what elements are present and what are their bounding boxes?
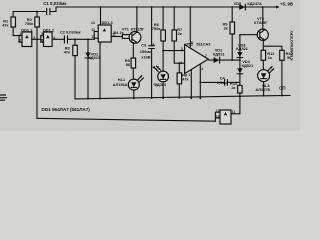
node R8 tap bbox=[178, 62, 180, 64]
svg-text:0,1мк: 0,1мк bbox=[217, 80, 227, 85]
wire ground rail bbox=[75, 95, 290, 99]
resistor R9 bbox=[223, 6, 235, 60]
svg-text:1: 1 bbox=[188, 73, 190, 77]
led HL3 bbox=[255, 67, 273, 92]
svg-text:КТ815Г: КТ815Г bbox=[131, 27, 145, 32]
svg-text:АЛ156А: АЛ156А bbox=[113, 82, 128, 87]
svg-text:3к: 3к bbox=[224, 25, 228, 30]
gate DD1.1 bbox=[19, 27, 35, 46]
capacitor C4 bbox=[200, 75, 240, 85]
svg-text:АЛ307Б: АЛ307Б bbox=[255, 87, 270, 92]
svg-text:КТ815Г: КТ815Г bbox=[254, 20, 268, 25]
svg-text:C2 0,033мк: C2 0,033мк bbox=[60, 29, 81, 34]
node C3 rail bbox=[151, 97, 153, 99]
transistor VT2 bbox=[254, 16, 268, 40]
wire HL2 to ground rail bbox=[162, 82, 164, 98]
wire R10 bottom through rail to DD1.4 out bbox=[239, 93, 241, 114]
wire VT1 emitter down bbox=[132, 43, 134, 59]
wire HL1 to ground rail bbox=[133, 90, 135, 98]
node rail arrowhead bbox=[276, 5, 280, 8]
svg-text:150мк: 150мк bbox=[140, 49, 151, 54]
svg-text:2к: 2к bbox=[231, 85, 235, 90]
capacitor C1 bbox=[43, 1, 67, 14]
wire DD1.2 out to C2 bbox=[52, 38, 64, 40]
node comparator input tap bbox=[162, 50, 164, 52]
resistor R8 bbox=[177, 63, 188, 98]
wire to DD2 pin3 bbox=[163, 50, 185, 52]
wire R4 to VT1 base bbox=[130, 36, 132, 38]
svg-text:C3: C3 bbox=[141, 43, 147, 48]
svg-text:4: 4 bbox=[201, 67, 203, 71]
svg-text:8: 8 bbox=[191, 41, 193, 45]
node R9 bottom bbox=[231, 59, 233, 61]
svg-text:7: 7 bbox=[205, 54, 207, 58]
svg-text:6: 6 bbox=[41, 39, 43, 43]
diode VD1 bbox=[85, 39, 101, 98]
node C4 tap bbox=[199, 82, 201, 84]
wire DD2 output bbox=[208, 59, 213, 60]
wire R1 to DD1.1 input bbox=[13, 27, 22, 36]
resistor R3 bbox=[64, 39, 78, 98]
wire DD1.3 tied inputs bbox=[94, 31, 98, 39]
svg-text:ФД263: ФД263 bbox=[154, 82, 167, 87]
capacitor C3 bbox=[140, 6, 156, 98]
wire DD1.3 pin7 to ground rail bbox=[99, 42, 101, 98]
wire VT2 base bbox=[240, 34, 258, 36]
svg-text:1: 1 bbox=[19, 32, 21, 36]
wire VT1 collector to rail bbox=[136, 7, 138, 32]
wire DD1.1 out to DD1.2 in bbox=[32, 38, 41, 40]
wire DD2 pin8 to rail bbox=[189, 7, 191, 48]
svg-text:521СА3: 521СА3 bbox=[196, 41, 211, 46]
svg-text:VD5: VD5 bbox=[234, 1, 242, 6]
resistor R10 bbox=[230, 81, 242, 93]
capacitor C2 bbox=[60, 29, 81, 43]
wire DD2 pin4 to ground bbox=[199, 64, 201, 98]
wire C2 to DD1.3 inputs bbox=[68, 38, 94, 40]
photodiode HL2 bbox=[151, 64, 168, 87]
svg-text:ОП: ОП bbox=[279, 86, 286, 91]
transistor VT1 bbox=[122, 27, 145, 44]
node pin4 ground junction bbox=[199, 97, 201, 99]
svg-text:750к: 750к bbox=[152, 26, 160, 31]
svg-text:1к: 1к bbox=[268, 55, 272, 60]
wire R12 to ground rail bbox=[281, 60, 283, 96]
wire VT2 collector to rail bbox=[262, 7, 264, 29]
wire R11 to HL3 bbox=[262, 60, 264, 69]
svg-text:+5..9В: +5..9В bbox=[280, 1, 293, 6]
gate DD1.4 bbox=[216, 109, 236, 124]
wire R2 bottom to gate output node bbox=[36, 27, 38, 39]
resistor R5 bbox=[125, 58, 136, 68]
wire VD2 to VD3/VD4 node bbox=[220, 59, 240, 61]
svg-text:2к: 2к bbox=[178, 31, 182, 36]
wire top-left from R1/R2 tops to C1 bbox=[13, 12, 46, 18]
wire HL3 to ground rail bbox=[263, 82, 265, 96]
svg-text:2: 2 bbox=[180, 61, 182, 65]
svg-text:VT1: VT1 bbox=[122, 27, 130, 32]
node R2 top junction bbox=[36, 11, 38, 13]
svg-text:47к: 47к bbox=[2, 23, 8, 28]
resistor R4 bbox=[113, 30, 129, 38]
node VD1 tap bbox=[87, 38, 89, 40]
diode VD4 bbox=[237, 59, 254, 86]
wire long drop to DD1.4 bbox=[36, 39, 38, 118]
wire R7 to DD2 pin4 bbox=[174, 41, 184, 63]
node pin7 ground junction bbox=[99, 98, 101, 100]
svg-text:DD1.3: DD1.3 bbox=[102, 20, 114, 25]
node pin1 ground junction bbox=[190, 97, 192, 99]
wire DD1.4 output up bbox=[231, 113, 240, 115]
svg-text:47к: 47к bbox=[64, 50, 70, 55]
led HL1 bbox=[113, 76, 144, 90]
svg-text:5: 5 bbox=[41, 32, 43, 36]
node pin14 rail bbox=[100, 6, 102, 8]
node R10 rail bbox=[239, 96, 241, 98]
wire DD1.2 tied inputs bbox=[41, 36, 44, 43]
svg-text:13: 13 bbox=[216, 114, 220, 118]
wire R2 top bbox=[36, 12, 38, 18]
diode VD5 bbox=[234, 1, 262, 10]
wire R6 to HL2 bbox=[162, 41, 164, 71]
resistor R12 bbox=[280, 50, 294, 60]
svg-text:HL2: HL2 bbox=[151, 64, 159, 69]
svg-text:12: 12 bbox=[216, 109, 220, 113]
op-amp DD2 comparator bbox=[180, 41, 211, 77]
svg-text:13: 13 bbox=[91, 35, 95, 39]
node scan mark bottom-left bbox=[0, 95, 7, 100]
wire VT2 emitter split bbox=[263, 40, 282, 50]
svg-text:х16В: х16В bbox=[141, 55, 150, 60]
node collector rail bbox=[262, 6, 264, 8]
resistor R1 bbox=[2, 17, 15, 28]
node R3 tap bbox=[74, 38, 76, 40]
resistor R6 bbox=[152, 6, 166, 41]
svg-text:КД521: КД521 bbox=[242, 63, 254, 68]
svg-text:3: 3 bbox=[181, 47, 183, 51]
svg-text:47к: 47к bbox=[182, 77, 188, 82]
node HL1 rail bbox=[133, 98, 135, 100]
svg-text:КД521: КД521 bbox=[236, 46, 248, 51]
svg-text:DD1 564ЛА7 (561ЛА7): DD1 564ЛА7 (561ЛА7) bbox=[42, 107, 91, 112]
resistor R7 bbox=[172, 6, 182, 41]
wire DD1.3 out bbox=[111, 36, 122, 38]
svg-text:КД247А: КД247А bbox=[247, 1, 262, 6]
wire VD3 to VD4 bbox=[239, 58, 241, 69]
svg-text:750к: 750к bbox=[25, 21, 33, 26]
resistor R2 bbox=[25, 17, 40, 27]
svg-text:14: 14 bbox=[91, 21, 95, 25]
node junction feedback bbox=[36, 38, 38, 40]
wire DD1.4 tied inputs bbox=[215, 112, 220, 121]
diode VD2 bbox=[213, 48, 225, 63]
svg-text:КД521: КД521 bbox=[88, 55, 100, 60]
wire R5 to HL1 bbox=[132, 68, 134, 79]
gate DD1.2 bbox=[41, 27, 55, 46]
resistor R11 bbox=[261, 50, 275, 60]
wire DD1.4 input line bbox=[37, 118, 215, 121]
node collector rail bbox=[136, 6, 138, 8]
node comparator out join bbox=[239, 59, 241, 61]
node HL2 rail bbox=[162, 97, 164, 99]
svg-text:К КОМПЬЮТЕРУ: К КОМПЬЮТЕРУ bbox=[290, 30, 294, 61]
wire DD1.3 pin14 to rail bbox=[100, 7, 102, 25]
wire DD1.1 tied inputs bbox=[19, 36, 22, 43]
wire top supply rail bbox=[50, 7, 276, 12]
svg-text:КД521: КД521 bbox=[213, 51, 225, 56]
node pin8 rail bbox=[189, 6, 191, 8]
gate DD1.3 bbox=[91, 20, 116, 47]
svg-text:C1 0,033мк: C1 0,033мк bbox=[43, 1, 67, 6]
node VD1 ground junction bbox=[87, 98, 89, 100]
diode VD3 bbox=[236, 35, 248, 58]
wire DD2 pin1 to ground bbox=[190, 70, 192, 99]
svg-text:12: 12 bbox=[91, 28, 95, 32]
